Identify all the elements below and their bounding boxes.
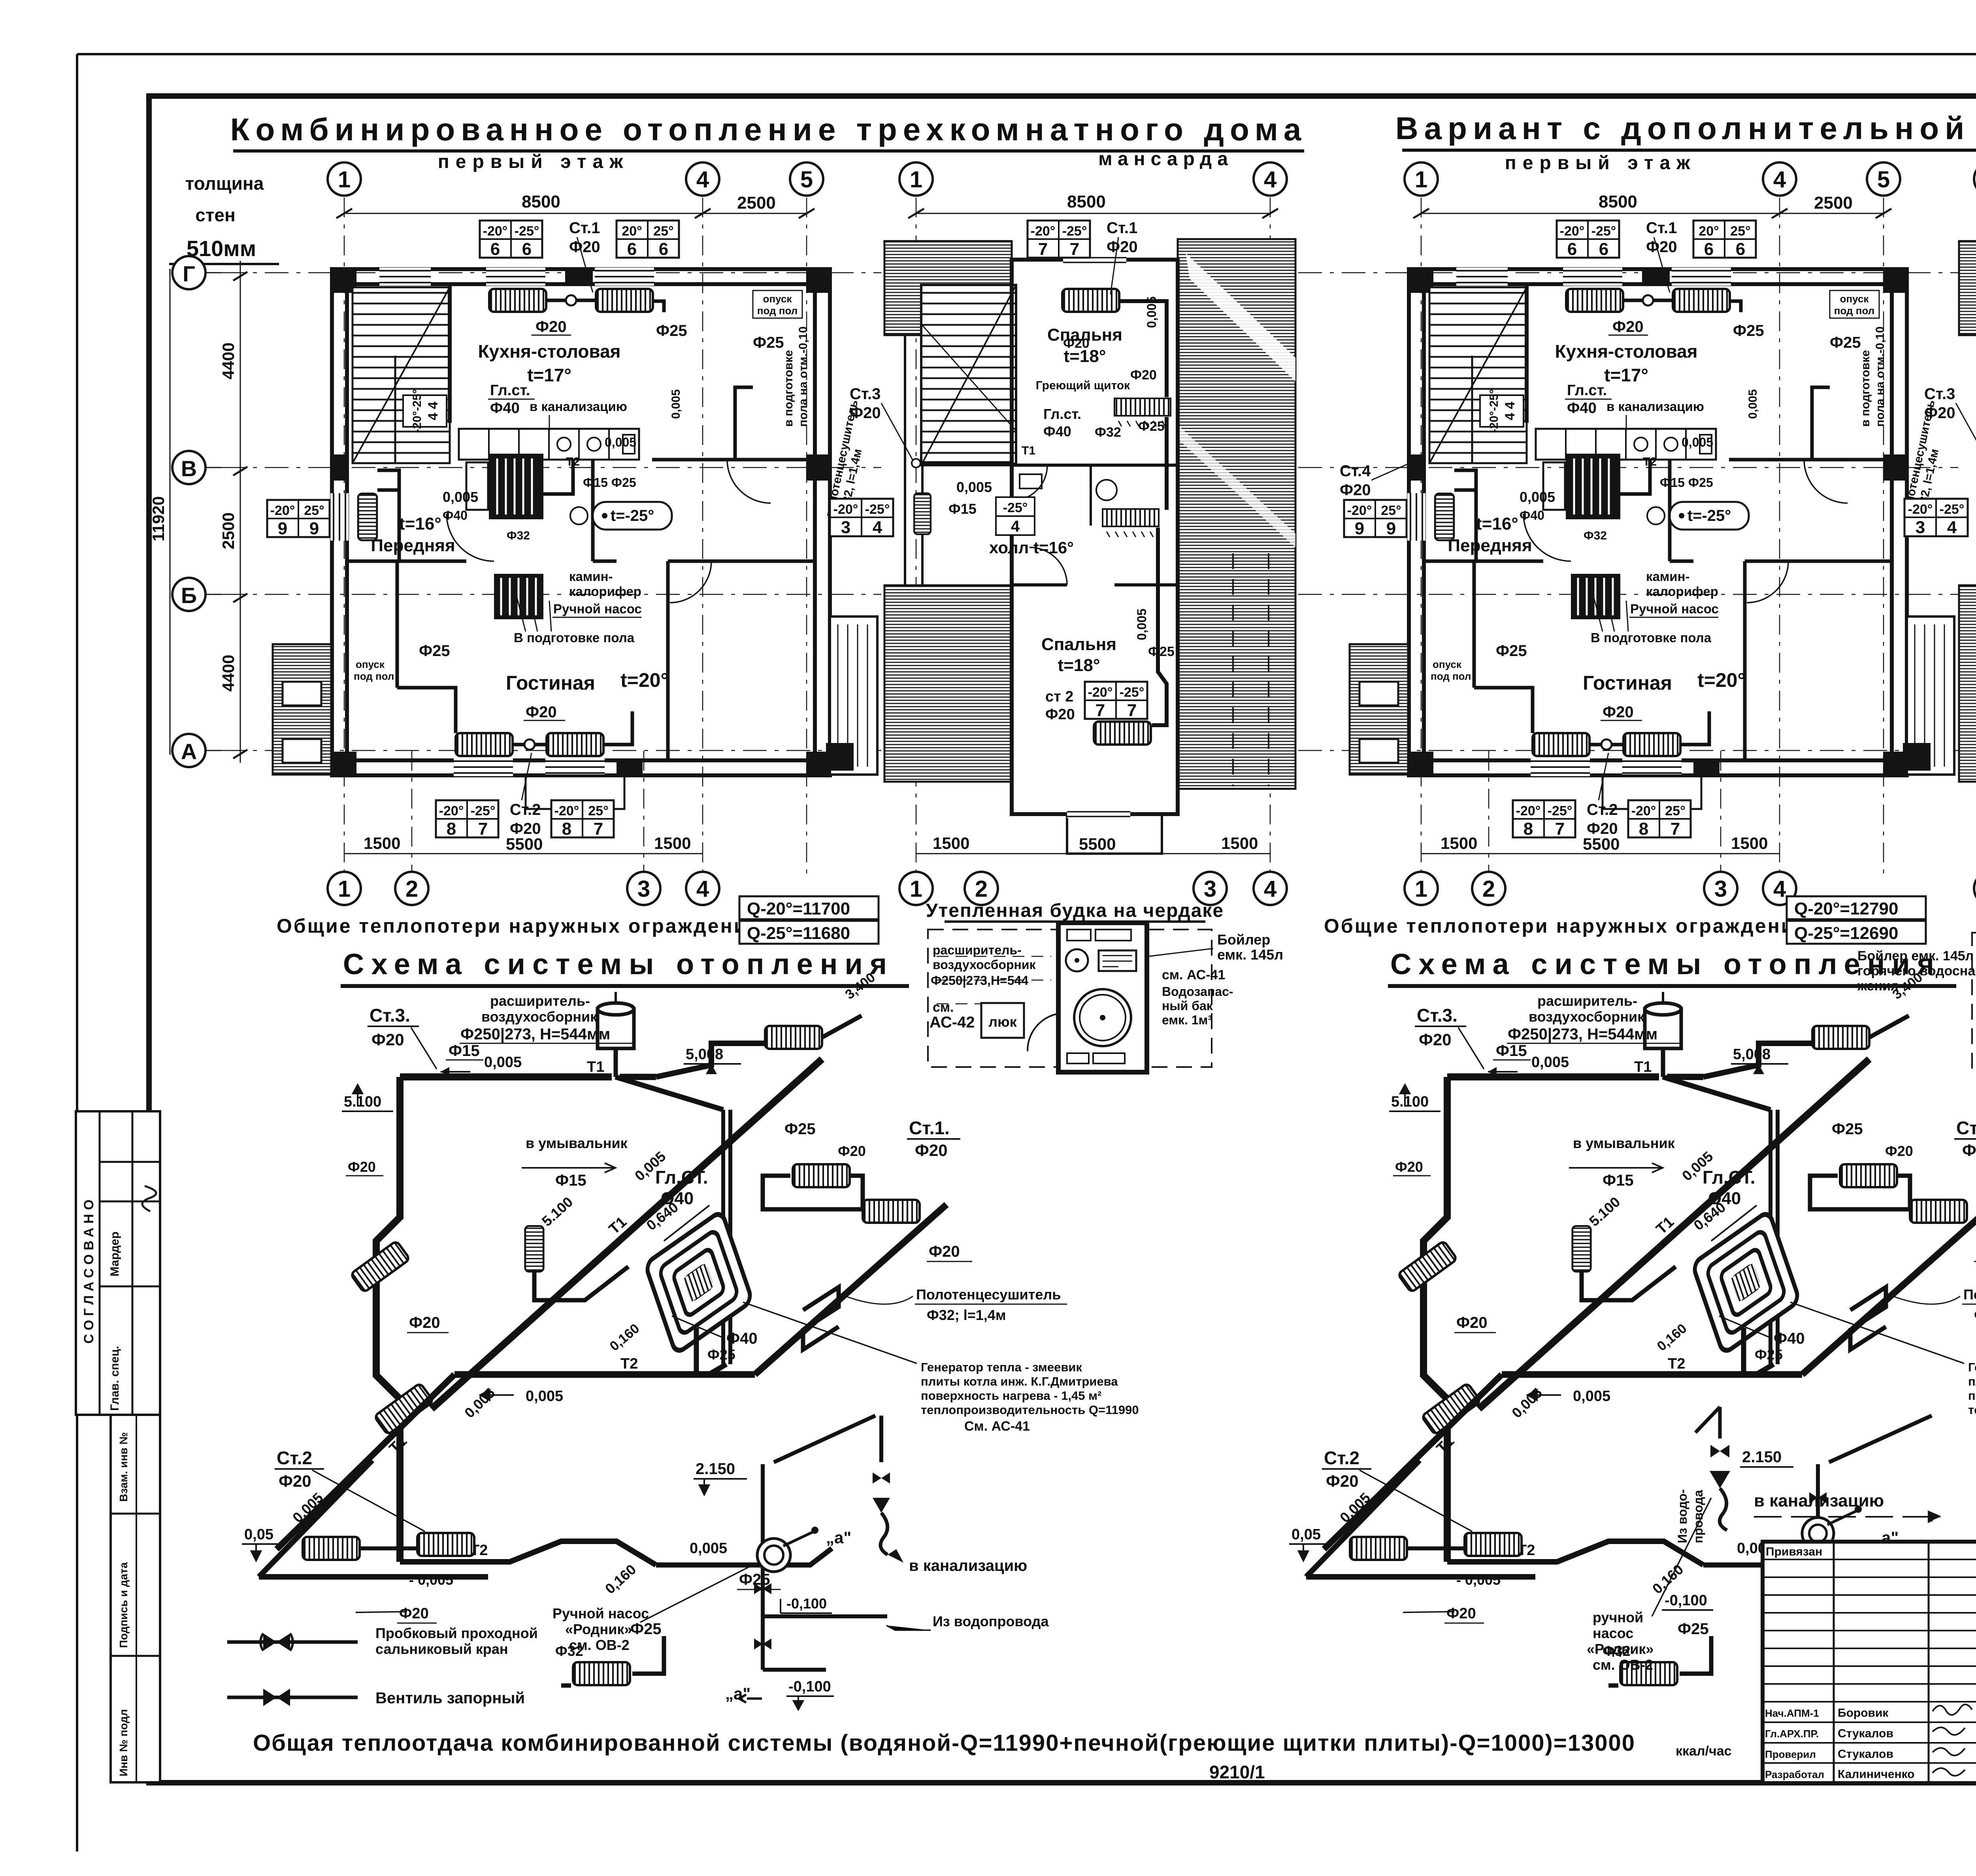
- svg-text:„а": „а": [725, 1684, 750, 1703]
- svg-text:Ф15: Ф15: [555, 1172, 586, 1189]
- svg-text:Ф20: Ф20: [838, 1143, 866, 1159]
- svg-text:Ф32: Ф32: [507, 529, 530, 542]
- reuse mansard for right variant: [1904, 162, 1976, 905]
- grid circle 4 bottom: [1254, 872, 1287, 905]
- svg-text:Стукалов: Стукалов: [1838, 1748, 1893, 1761]
- svg-text:4400: 4400: [219, 343, 238, 379]
- svg-text:Инв № подл: Инв № подл: [117, 1709, 130, 1776]
- svg-text:стен: стен: [195, 205, 235, 225]
- svg-text:7: 7: [478, 819, 488, 839]
- label St1 mansard: [1107, 219, 1138, 294]
- svg-text:Ст.2: Ст.2: [277, 1448, 312, 1468]
- svg-text:9210/1: 9210/1: [1209, 1762, 1265, 1782]
- t-box left: [267, 500, 330, 538]
- top window: [1063, 257, 1126, 263]
- door arcs mansard: [1029, 547, 1067, 585]
- central rooms outline: [1012, 260, 1178, 814]
- porch bottom-left hatched: [273, 644, 331, 775]
- svg-text:расширитель-: расширитель-: [490, 993, 590, 1009]
- svg-text:7: 7: [1095, 701, 1105, 720]
- wall piers (black): [332, 269, 356, 293]
- svg-text:6: 6: [627, 239, 637, 259]
- svg-text:«Родник»: «Родник»: [565, 1621, 632, 1637]
- svg-text:8500: 8500: [1067, 192, 1106, 211]
- mansard plan (left): [830, 162, 1295, 905]
- svg-text:-0,100: -0,100: [1665, 1592, 1707, 1609]
- bottom dim: [916, 853, 1270, 854]
- t-box mansard bottom: [1085, 682, 1147, 720]
- left stamp strip upper: [76, 1111, 160, 1415]
- expansion tank: [598, 992, 634, 1077]
- svg-text:t=18°: t=18°: [1058, 656, 1100, 675]
- left riser: [376, 1077, 400, 1562]
- svg-text:Полотенцесушитель: Полотенцесушитель: [916, 1286, 1061, 1303]
- svg-text:8500: 8500: [522, 192, 560, 211]
- svg-text:опуск: опуск: [356, 658, 385, 670]
- radiator top mansard: [1062, 289, 1119, 312]
- svg-text:4: 4: [1264, 876, 1276, 902]
- stair block mansard: [921, 285, 1016, 465]
- svg-text:-25°: -25°: [1120, 685, 1144, 700]
- kamin-kalorifer lower block: [494, 574, 543, 619]
- svg-text:«Родник»: «Родник»: [1587, 1641, 1654, 1657]
- svg-text:Ф40: Ф40: [1043, 423, 1071, 439]
- svg-text:25°: 25°: [588, 803, 608, 818]
- svg-text:-0,100: -0,100: [788, 1678, 831, 1695]
- radiator top-left: [489, 289, 546, 312]
- svg-text:20°: 20°: [622, 224, 642, 239]
- pipe kitchen riser: [653, 301, 664, 312]
- svg-text:25°: 25°: [304, 503, 324, 518]
- svg-text:Ф32; l=1,4м: Ф32; l=1,4м: [927, 1307, 1006, 1323]
- small circle fixture: [570, 507, 588, 524]
- svg-text:ный бак: ный бак: [1162, 999, 1213, 1013]
- svg-text:Генератор тепла - змеевик: Генератор тепла - змеевик: [921, 1360, 1082, 1374]
- svg-text:Ф20: Ф20: [1130, 368, 1157, 383]
- bottom dimension line: [344, 853, 703, 854]
- svg-text:Гл.ст.: Гл.ст.: [1043, 406, 1081, 422]
- svg-text:Комбинированное отопление трех: Комбинированное отопление трехкомнатного…: [230, 112, 1307, 147]
- reuse schema right: [1289, 948, 1976, 1686]
- suction diagonal: [1829, 1416, 1932, 1462]
- svg-text:Ручной насос: Ручной насос: [553, 601, 642, 616]
- towel dryer: [803, 1287, 839, 1350]
- left vertical dimension line: [240, 261, 241, 763]
- svg-text:9: 9: [278, 519, 287, 538]
- riser label St4 for right first floor: [1340, 462, 1407, 499]
- grid circle 5 top: [790, 162, 823, 196]
- svg-text:Ф20: Ф20: [1340, 481, 1371, 499]
- boiler cabinet: [1058, 923, 1147, 1072]
- svg-text:Бойлер: Бойлер: [1217, 931, 1270, 948]
- pipe hall: [921, 461, 1012, 465]
- T2 diagonal upper: [755, 1205, 947, 1374]
- grid circle 4 top: [1254, 162, 1287, 196]
- svg-text:см. ОВ-2: см. ОВ-2: [1593, 1657, 1653, 1673]
- grid axis line 2: [411, 751, 413, 875]
- svg-text:в канализацию: в канализацию: [909, 1557, 1027, 1574]
- heating system schema: [242, 948, 1139, 1686]
- svg-text:Ф250|273,Н=544: Ф250|273,Н=544: [931, 973, 1028, 988]
- svg-text:-20°: -20°: [270, 503, 295, 518]
- radiator left tilted 1: [351, 1241, 410, 1293]
- svg-text:Ф20: Ф20: [510, 820, 541, 837]
- row axis Б: [221, 594, 881, 595]
- grid axis line 1: [344, 198, 345, 875]
- svg-text:1: 1: [338, 876, 351, 902]
- svg-text:Ф25: Ф25: [1148, 644, 1175, 659]
- svg-text:2: 2: [405, 876, 418, 902]
- svg-text:Т2: Т2: [620, 1356, 638, 1372]
- roof hatch right tall: [1178, 239, 1295, 789]
- valve bowtie on riser: [1809, 1492, 1827, 1503]
- svg-text:холл t=16°: холл t=16°: [989, 538, 1074, 557]
- opusk box top right: [753, 290, 802, 318]
- svg-text:Ф20: Ф20: [399, 1605, 429, 1622]
- svg-text:3: 3: [841, 518, 850, 537]
- svg-text:ккал/час: ккал/час: [1676, 1744, 1732, 1759]
- svg-text:Ф20: Ф20: [915, 1141, 948, 1160]
- svg-text:-20°: -20°: [554, 803, 579, 818]
- boiler coil: [645, 1210, 752, 1354]
- svg-text:4: 4: [696, 167, 709, 192]
- svg-text:8: 8: [562, 819, 571, 839]
- svg-text:первый этаж: первый этаж: [1505, 153, 1696, 173]
- letter circle В: [172, 451, 221, 484]
- svg-text:В: В: [181, 456, 197, 481]
- svg-text:-20°: -20°: [1088, 685, 1113, 700]
- stair block: [353, 287, 450, 463]
- pipe up to right radiator: [656, 1043, 765, 1077]
- svg-text:АС-42: АС-42: [930, 1014, 975, 1031]
- svg-text:Передняя: Передняя: [371, 536, 455, 555]
- svg-text:А: А: [181, 739, 197, 764]
- radiator sch top-right: [765, 1026, 822, 1049]
- svg-text:2500: 2500: [737, 193, 776, 213]
- svg-text:-25°: -25°: [1003, 500, 1028, 515]
- svg-text:Водозапас-: Водозапас-: [1162, 984, 1233, 999]
- radiator left vertical: [358, 494, 377, 540]
- svg-text:Пробковый проходной: Пробковый проходной: [375, 1625, 538, 1641]
- svg-text:5500: 5500: [1079, 835, 1116, 853]
- svg-text:толщина: толщина: [185, 173, 264, 194]
- grid axis line 1: [916, 198, 917, 875]
- svg-text:в умывальник: в умывальник: [526, 1135, 628, 1151]
- greyushchiy shchitok upper: [1114, 398, 1171, 426]
- svg-text:расширитель-: расширитель-: [933, 943, 1022, 957]
- svg-text:Ф250|273, Н=544мм: Ф250|273, Н=544мм: [460, 1026, 610, 1043]
- svg-text:Вариант с дополнительной комна: Вариант с дополнительной комнатой в манс…: [1395, 111, 1976, 146]
- pump: [1802, 1518, 1834, 1549]
- pump: [757, 1539, 790, 1572]
- roof hatch bottom-left: [884, 585, 1012, 782]
- svg-text:Вентиль запорный: Вентиль запорный: [375, 1689, 525, 1707]
- svg-text:-25°: -25°: [471, 803, 496, 818]
- heat loss line right: [1324, 896, 1926, 944]
- svg-text:Ф20: Ф20: [1063, 336, 1090, 351]
- svg-text:Ст.3: Ст.3: [850, 385, 881, 403]
- grid axis line 4: [702, 198, 703, 875]
- water drum: [1074, 989, 1131, 1046]
- svg-text:1500: 1500: [933, 834, 969, 852]
- svg-text:Калиниченко: Калиниченко: [1838, 1768, 1915, 1781]
- svg-text:Общие теплопотери наружных: Общие теплопотери наружных ограждений:: [277, 915, 769, 937]
- main stack double line: [723, 1110, 730, 1364]
- svg-text:Ф40: Ф40: [443, 508, 468, 522]
- svg-text:1500: 1500: [364, 834, 400, 852]
- reuse plan for right variant first floor: [1298, 162, 1958, 905]
- svg-text:Из водопровода: Из водопровода: [933, 1613, 1049, 1629]
- svg-text:Ф25: Ф25: [630, 1620, 662, 1638]
- insulated attic booth left: [926, 900, 1283, 1072]
- bath fixtures: [1096, 480, 1117, 500]
- hatch door: [981, 1003, 1024, 1038]
- interior walls mansard: [1012, 464, 1178, 467]
- svg-text:емк. 145л: емк. 145л: [1217, 946, 1283, 963]
- legend valve 1: [227, 1640, 358, 1644]
- svg-text:1: 1: [338, 167, 351, 192]
- svg-text:под пол: под пол: [354, 670, 394, 682]
- svg-text:0,005: 0,005: [956, 479, 992, 495]
- svg-text:в подготовке: в подготовке: [782, 350, 795, 427]
- svg-text:4 4: 4 4: [426, 402, 441, 420]
- svg-text:5500: 5500: [506, 835, 543, 853]
- svg-text:0,005: 0,005: [484, 1054, 522, 1071]
- svg-text:в канализацию: в канализацию: [1754, 1491, 1884, 1510]
- grid circle 4 top: [686, 162, 719, 196]
- svg-text:Ф20: Ф20: [526, 703, 557, 721]
- t-box mid (stair): [403, 389, 447, 433]
- bottom porch: [1067, 814, 1162, 854]
- svg-text:25°: 25°: [653, 224, 673, 239]
- top dimension line: [916, 213, 1270, 214]
- svg-text:В подготовке пола: В подготовке пола: [514, 630, 635, 645]
- grid axis line 5: [806, 198, 807, 875]
- interior wall kitchen/stair: [448, 284, 452, 423]
- svg-text:0,005: 0,005: [690, 1540, 727, 1557]
- letter circle Г: [172, 256, 221, 289]
- bottom T2 line: [400, 1541, 656, 1565]
- insulated attic booth right: [1857, 899, 1976, 1076]
- svg-text:Ст.1: Ст.1: [569, 219, 600, 237]
- radiator bottom-right: [547, 733, 603, 756]
- grid circle 1 top: [899, 162, 933, 196]
- svg-text:3: 3: [637, 876, 650, 902]
- svg-text:Гл.ст.: Гл.ст.: [490, 382, 530, 399]
- window gap top 3: [379, 268, 431, 286]
- door arc hall: [447, 514, 494, 561]
- svg-text:-25°: -25°: [515, 224, 539, 239]
- valve on vertical: [754, 1583, 771, 1594]
- extra bottom circles 2,3 for left mansard: [965, 872, 998, 905]
- right veranda: [826, 617, 877, 775]
- pipe from top radiators: [546, 299, 596, 302]
- svg-text:сальниковый кран: сальниковый кран: [375, 1641, 508, 1657]
- T2 diagonal lower: [277, 1374, 454, 1549]
- svg-text:0,005: 0,005: [605, 435, 636, 449]
- roof hatch top-left: [884, 241, 1012, 335]
- radiator mid small vertical: [525, 1226, 543, 1271]
- dim 11920 total: [170, 269, 171, 755]
- svg-text:-20°: -20°: [439, 803, 464, 818]
- first floor plan (left variant): [221, 162, 881, 905]
- interior wall below counter: [652, 458, 815, 462]
- t=-25 oval: [593, 502, 672, 530]
- svg-text:См. АС-41: См. АС-41: [964, 1419, 1030, 1434]
- svg-text:Общие теплопотери наружных: Общие теплопотери наружных ограждений:: [1324, 915, 1817, 937]
- svg-text:Гостиная: Гостиная: [506, 672, 595, 694]
- svg-text:насос: насос: [1593, 1625, 1633, 1641]
- svg-text:Ст.2: Ст.2: [510, 801, 541, 818]
- t-box top A: [480, 221, 542, 259]
- svg-text:Гл.АРХ.ПР.: Гл.АРХ.ПР.: [1765, 1728, 1819, 1740]
- svg-text:1: 1: [910, 167, 922, 192]
- svg-text:7: 7: [1038, 239, 1048, 259]
- hall walls: [347, 560, 466, 563]
- svg-text:Кухня-столовая: Кухня-столовая: [478, 341, 620, 362]
- svg-text:6: 6: [522, 239, 532, 259]
- svg-text:0,005: 0,005: [1135, 609, 1149, 640]
- row axis Г: [221, 272, 881, 273]
- grid circle 3 bottom: [627, 872, 660, 905]
- svg-text:-20°: -20°: [1031, 224, 1056, 239]
- svg-text:6: 6: [659, 239, 668, 259]
- svg-text:первый этаж: первый этаж: [438, 151, 629, 172]
- svg-text:Утепленная будка на чердаке: Утепленная будка на чердаке: [926, 900, 1224, 921]
- left stamp strip lower: [111, 1415, 160, 1782]
- St1 radiators pair: [793, 1164, 850, 1187]
- svg-text:Ф25: Ф25: [707, 1346, 735, 1363]
- svg-text:Ст.1.: Ст.1.: [909, 1118, 950, 1138]
- svg-text:t=17°: t=17°: [527, 365, 571, 385]
- letter circle Б: [172, 578, 221, 611]
- svg-text:Схема системы отопления: Схема системы отопления: [343, 948, 894, 980]
- svg-text:Ф25: Ф25: [753, 334, 784, 351]
- svg-text:-25°: -25°: [865, 502, 890, 517]
- exterior door bottom steps: [526, 775, 624, 809]
- svg-text:Стукалов: Стукалов: [1838, 1727, 1893, 1740]
- svg-text:Ф20: Ф20: [279, 1472, 311, 1490]
- radiator bottom-left: [456, 733, 513, 756]
- svg-text:Г: Г: [183, 261, 195, 286]
- kitchen counter row: [459, 429, 639, 460]
- svg-text:„а": „а": [826, 1528, 851, 1547]
- svg-text:4: 4: [696, 876, 709, 902]
- window bottom 1: [454, 758, 513, 776]
- svg-text:2500: 2500: [219, 513, 238, 549]
- svg-text:4: 4: [873, 518, 882, 537]
- svg-text:в канализацию: в канализацию: [530, 399, 627, 414]
- svg-text:Ручной насос: Ручной насос: [552, 1605, 649, 1621]
- svg-text:1: 1: [910, 876, 922, 902]
- left wall strip: [905, 335, 922, 585]
- svg-text:Ф25: Ф25: [656, 322, 687, 339]
- t-box mansard top: [1028, 221, 1090, 259]
- svg-text:Спальня: Спальня: [1041, 635, 1116, 654]
- svg-text:t=16°: t=16°: [399, 514, 441, 534]
- grid circle 2 bottom: [395, 872, 428, 905]
- svg-text:опуск: опуск: [763, 293, 792, 305]
- svg-text:7: 7: [594, 819, 603, 839]
- svg-text:воздухосборник: воздухосборник: [481, 1009, 598, 1025]
- svg-text:Ст.4: Ст.4: [1340, 462, 1371, 480]
- svg-text:Ф25: Ф25: [784, 1120, 816, 1138]
- svg-text:Ф20: Ф20: [535, 318, 567, 336]
- heating pipe riser right: [1120, 301, 1167, 397]
- grid axis line 3: [643, 751, 645, 875]
- svg-text:калорифер: калорифер: [569, 584, 641, 599]
- svg-text:Ф25: Ф25: [419, 642, 450, 660]
- svg-text:t=-25°: t=-25°: [611, 507, 654, 524]
- svg-text:ручной: ручной: [1593, 1609, 1643, 1625]
- svg-text:воздухосборник: воздухосборник: [933, 958, 1036, 972]
- grid circle 1 top: [328, 162, 361, 196]
- svg-text:3: 3: [1204, 876, 1216, 902]
- svg-text:Проверил: Проверил: [1765, 1748, 1816, 1760]
- top dimension line 8500 / 2500: [344, 213, 807, 214]
- svg-text:Q-25°=12690: Q-25°=12690: [1794, 924, 1898, 943]
- radiator bottom mansard: [1094, 722, 1151, 745]
- svg-text:пола на отм.-0,10: пола на отм.-0,10: [797, 326, 810, 427]
- svg-text:Б: Б: [181, 583, 197, 608]
- svg-text:7: 7: [1070, 239, 1079, 259]
- pump riser: [1816, 1464, 1820, 1533]
- svg-text:Ст.3.: Ст.3.: [370, 1005, 410, 1026]
- svg-text:Ф32: Ф32: [1095, 425, 1121, 440]
- legend valve 2: [227, 1696, 358, 1699]
- svg-text:4400: 4400: [219, 655, 238, 692]
- svg-text:-25°: -25°: [1062, 224, 1087, 239]
- svg-text:Ф20: Ф20: [371, 1030, 404, 1049]
- svg-text:Ф20: Ф20: [850, 404, 881, 422]
- heat loss line left: [277, 896, 879, 944]
- wall thickness note left: [169, 173, 279, 264]
- svg-text:СОГЛАСОВАНО: СОГЛАСОВАНО: [81, 1195, 96, 1344]
- svg-text:Q-20°=12790: Q-20°=12790: [1794, 899, 1898, 918]
- grid circle 4 bottom: [686, 872, 719, 905]
- svg-text:Нач.АПМ-1: Нач.АПМ-1: [1765, 1707, 1819, 1719]
- svg-text:Ф20: Ф20: [929, 1243, 960, 1260]
- pump assembly left: [552, 1416, 1049, 1710]
- svg-text:5: 5: [800, 167, 813, 192]
- legend: [227, 1625, 538, 1707]
- radiator left small: [914, 493, 931, 534]
- svg-text:люк: люк: [988, 1014, 1017, 1030]
- svg-text:плиты котла инж. К.Г.Дмитриева: плиты котла инж. К.Г.Дмитриева: [921, 1374, 1118, 1388]
- window gap top 2: [595, 268, 654, 286]
- svg-text:Ф15: Ф15: [449, 1042, 480, 1060]
- letter circle А: [172, 734, 221, 767]
- svg-text:ст 2: ст 2: [1045, 688, 1073, 705]
- top header pipe T1: [400, 1073, 612, 1080]
- svg-text:Ст.1: Ст.1: [1107, 219, 1137, 237]
- svg-text:см.: см.: [933, 1000, 954, 1015]
- svg-text:теплопроизводительность Q=1199: теплопроизводительность Q=11990: [921, 1403, 1139, 1417]
- svg-text:2.150: 2.150: [1742, 1448, 1782, 1466]
- svg-text:емк. 1м³: емк. 1м³: [1162, 1013, 1212, 1027]
- grid circle 1 bottom: [328, 872, 361, 905]
- t-box top B: [617, 221, 679, 259]
- svg-text:Ф20: Ф20: [1107, 238, 1138, 256]
- svg-text:Т1: Т1: [587, 1059, 604, 1075]
- svg-text:0,005: 0,005: [443, 489, 478, 505]
- small -25/4 box: [996, 497, 1035, 535]
- left t-box pair: [830, 499, 893, 537]
- stove / kamin black mass: [466, 454, 543, 519]
- svg-text:-20°: -20°: [833, 502, 858, 517]
- pump assembly right: [1587, 1407, 1940, 1673]
- svg-text:Боровик: Боровик: [1838, 1706, 1889, 1720]
